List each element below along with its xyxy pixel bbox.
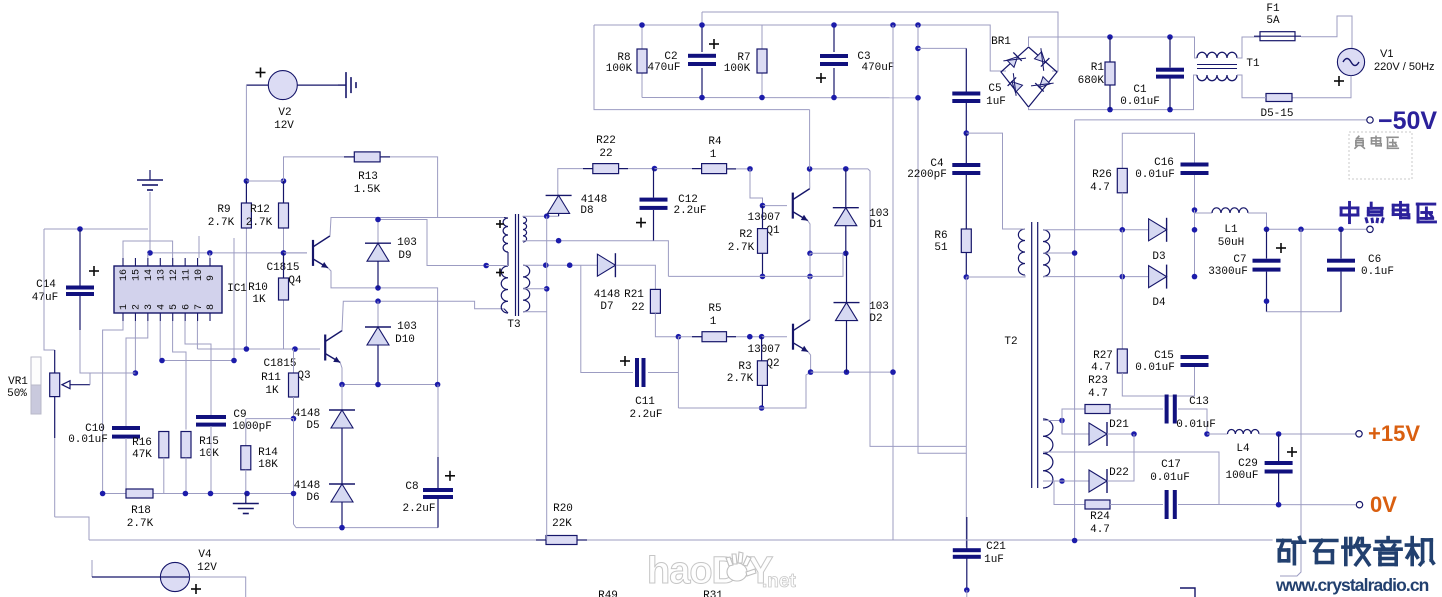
wire Q4 collector: [330, 218, 438, 236]
svg-text:51: 51: [934, 242, 948, 254]
wire D6 bottom rail: [296, 527, 438, 529]
transformer T3 primary lower: [501, 266, 508, 313]
wire C11 branch: [581, 265, 633, 372]
wire x678 column: [677, 337, 679, 408]
diode D7: [597, 254, 615, 276]
capacitor C29: [1278, 434, 1280, 461]
wire R3 bottom y408: [678, 372, 810, 408]
resistor R15: [181, 432, 191, 458]
node C21 bottom: [964, 587, 970, 593]
svg-text:R14: R14: [258, 447, 278, 459]
resistor R5: [678, 336, 702, 338]
resistor R24: [1054, 481, 1085, 505]
svg-text:18K: 18K: [258, 459, 278, 471]
capacitor C7: [1266, 229, 1268, 258]
ground V2: [338, 84, 346, 86]
svg-text:5: 5: [169, 304, 180, 310]
wire emitter rail y372.1: [811, 371, 893, 373]
svg-text:2.7K: 2.7K: [127, 518, 154, 530]
wire pin9 tap: [209, 253, 211, 258]
resistor R22: [558, 169, 593, 196]
wire pin2 fan to VR1 node: [134, 321, 136, 373]
svg-text:2.2uF: 2.2uF: [629, 409, 662, 421]
wire emitter node to D1: [810, 252, 846, 254]
wire bottom rail y540: [89, 539, 546, 541]
capacitor C4: [965, 133, 967, 163]
svg-text:Q4: Q4: [288, 275, 302, 287]
diode D9: [377, 220, 379, 244]
node C2 top: [699, 22, 705, 28]
wire D5-15 to T1 bottom: [1237, 75, 1266, 98]
svg-text:D7: D7: [600, 301, 613, 313]
wire 0V rail: [1219, 504, 1356, 506]
capacitor C16: [1181, 163, 1209, 167]
node D10 top: [375, 298, 381, 304]
svg-text:2.7K: 2.7K: [727, 373, 754, 385]
resistor R27: [1121, 277, 1123, 349]
wire T2 upper sec center tap: [1043, 252, 1075, 254]
svg-text:2.7K: 2.7K: [728, 242, 755, 254]
capacitor C12: [653, 169, 655, 198]
transistor Q3 C1815: [324, 335, 326, 361]
transformer T1: [1197, 52, 1237, 58]
svg-text:1: 1: [710, 149, 717, 161]
node C29 bottom: [1276, 502, 1282, 508]
svg-text:R11: R11: [261, 372, 281, 384]
wire base to Q2: [762, 336, 787, 338]
watermark haoDIY.net: [647, 550, 796, 592]
diode D2: [846, 253, 848, 302]
wire y229: [44, 228, 148, 230]
svg-text:R5: R5: [708, 303, 721, 315]
svg-text:V1: V1: [1380, 48, 1393, 60]
capacitor C8: [437, 385, 439, 458]
svg-text:V4: V4: [198, 549, 212, 561]
svg-text:100K: 100K: [606, 63, 633, 75]
svg-text:C29: C29: [1238, 458, 1258, 470]
svg-text:0V: 0V: [1370, 492, 1397, 517]
wire V4 left: [91, 560, 93, 577]
svg-text:C16: C16: [1154, 157, 1174, 169]
svg-text:2.2uF: 2.2uF: [402, 503, 435, 515]
wire rail left rise: [55, 517, 89, 540]
svg-text:2200pF: 2200pF: [907, 169, 947, 181]
box corner bottom left of watermark: [1180, 588, 1195, 597]
svg-text:12V: 12V: [274, 120, 294, 132]
svg-text:V2: V2: [278, 107, 291, 119]
wire x546 column: [546, 216, 548, 289]
svg-text:C15: C15: [1154, 350, 1174, 362]
wire pin3 fan to C10: [126, 321, 148, 426]
svg-text:C8: C8: [405, 481, 418, 493]
node C12 top: [652, 166, 658, 172]
svg-text:R12: R12: [250, 204, 270, 216]
svg-text:1: 1: [119, 304, 130, 310]
wire V1 bottom to D5-15: [1292, 76, 1351, 98]
wire T3 sec upper bottom: [523, 241, 654, 242]
node R4 right: [747, 166, 753, 172]
wire C2 top stub to y12: [701, 12, 703, 25]
diode D21: [1062, 421, 1089, 435]
bridge rectifier BR1: [1001, 47, 1057, 107]
wire -50V rail: [1075, 119, 1367, 121]
node D9 top: [375, 217, 381, 223]
resistor R8: [641, 25, 643, 49]
node D4 line: [1120, 274, 1126, 280]
svg-text:100K: 100K: [724, 63, 751, 75]
svg-text:D8: D8: [580, 205, 593, 217]
svg-text:4.7: 4.7: [1090, 182, 1110, 194]
wire BR1 bottom to y109.6 rail: [1029, 75, 1198, 110]
wire T2 primary bottom: [966, 275, 1025, 277]
svg-text:2.7K: 2.7K: [246, 217, 273, 229]
svg-text:C6: C6: [1368, 254, 1381, 266]
wire VR1 bottom: [54, 438, 56, 517]
svg-text:D1: D1: [869, 219, 883, 231]
node fan y360: [159, 358, 165, 364]
wire T2 lower sec bottom: [1043, 480, 1062, 482]
svg-text:16: 16: [119, 269, 130, 281]
wire x1301 down: [1280, 229, 1301, 576]
node y276.4: [807, 274, 813, 280]
wire C14 bottom to VR1 node: [80, 330, 135, 373]
svg-text:www.crystalradio.cn: www.crystalradio.cn: [1275, 575, 1429, 595]
svg-text:L1: L1: [1224, 224, 1238, 236]
transformer T3 primary upper: [503, 218, 508, 252]
svg-text:R27: R27: [1093, 350, 1113, 362]
wire y288.8 stub: [523, 288, 547, 290]
svg-text:R6: R6: [934, 230, 947, 242]
resistor R7: [761, 25, 763, 49]
wire R6 bottom down to C21: [965, 277, 967, 547]
svg-text:2.2uF: 2.2uF: [673, 205, 706, 217]
wire V2 right lead: [297, 84, 338, 86]
terminal mid voltage: [1367, 226, 1373, 232]
resistor R26: [1117, 168, 1127, 192]
capacitor C10: [112, 426, 140, 430]
node x546: [544, 286, 550, 292]
svg-text:T1: T1: [1246, 58, 1260, 70]
node Q2 emitter: [808, 369, 814, 375]
resistor R12: [283, 181, 285, 203]
node R3 bottom: [759, 405, 765, 411]
wire pin5 fan to R15: [173, 321, 186, 430]
node D21 out: [1131, 431, 1137, 437]
resistor R18: [126, 489, 153, 498]
svg-text:C21: C21: [986, 541, 1006, 553]
wire x809 from top: [809, 110, 811, 169]
svg-text:R4: R4: [708, 136, 722, 148]
varistor D5-15: [1266, 94, 1292, 102]
capacitor C5: [965, 48, 967, 91]
transformer T3 sec lower: [523, 265, 530, 312]
node D9 anode: [375, 285, 381, 291]
wire collector rail y168.9: [810, 168, 868, 170]
wire x870 feedback vertical: [868, 169, 966, 447]
wire T1 top right to fuse: [1237, 37, 1260, 58]
svg-text:1uF: 1uF: [984, 554, 1004, 566]
diode D22: [1059, 478, 1065, 484]
svg-text:Q3: Q3: [297, 370, 310, 382]
svg-text:D5-15: D5-15: [1260, 108, 1293, 120]
wire T3 center tap feed: [378, 220, 486, 266]
terminal 0V: [1356, 502, 1362, 508]
svg-text:47K: 47K: [132, 449, 152, 461]
svg-text:470uF: 470uF: [861, 62, 894, 74]
svg-text:R3: R3: [738, 361, 751, 373]
svg-text:L4: L4: [1236, 443, 1250, 455]
wire rail y493.5: [103, 493, 126, 495]
transformer T2 primary winding: [1018, 229, 1025, 275]
svg-text:50uH: 50uH: [1218, 237, 1244, 249]
wire T3 sec lower top: [523, 264, 597, 266]
resistor R9: [245, 181, 247, 203]
svg-text:C14: C14: [36, 279, 56, 291]
wire Q3 collector: [342, 301, 504, 330]
svg-text:D4: D4: [1152, 297, 1166, 309]
svg-text:R1: R1: [1091, 62, 1105, 74]
inductor L4: [1207, 433, 1228, 435]
svg-text:R15: R15: [199, 436, 219, 448]
svg-text:D3: D3: [1152, 251, 1165, 263]
svg-text:22: 22: [631, 302, 644, 314]
svg-text:+15V: +15V: [1368, 421, 1420, 446]
svg-text:C7: C7: [1233, 254, 1246, 266]
wire Q2 collector: [809, 276, 811, 319]
svg-text:T2: T2: [1004, 336, 1017, 348]
transistor Q2 13007: [792, 324, 794, 350]
svg-text:12: 12: [169, 269, 180, 281]
capacitor C2: [701, 25, 703, 52]
watermark hand icon: [726, 552, 756, 581]
diode D4: [1149, 266, 1167, 288]
svg-text:R18: R18: [131, 505, 151, 517]
capacitor C21: [966, 517, 968, 549]
node D1 bottom: [843, 251, 849, 257]
voltage source V2: [268, 71, 297, 100]
wire V4 right: [190, 577, 246, 597]
terminal -50V: [1367, 117, 1373, 123]
diode D1: [845, 169, 847, 208]
wire fuse to V1: [1301, 16, 1352, 48]
svg-text:2: 2: [132, 304, 143, 310]
node rail x1074: [1072, 538, 1078, 544]
svg-text:0.01uF: 0.01uF: [1120, 96, 1160, 108]
resistor R26 loop: [1122, 133, 1194, 168]
diode D5: [341, 385, 343, 411]
wire R4 to Q1 base: [750, 169, 763, 206]
potentiometer VR1: [54, 350, 56, 373]
wire y276.4: [668, 253, 843, 276]
svg-text:VR1: VR1: [8, 376, 28, 388]
svg-text:103: 103: [869, 301, 889, 313]
svg-text:R16: R16: [132, 437, 152, 449]
wire C12 bottom to emitter line: [654, 241, 669, 277]
svg-text:0.1uF: 0.1uF: [1361, 266, 1394, 278]
resistor R6: [961, 229, 971, 253]
svg-text:0.01uF: 0.01uF: [1176, 419, 1216, 431]
node R5 right: [747, 334, 753, 340]
diode D3: [1149, 219, 1167, 241]
svg-text:13: 13: [156, 269, 167, 281]
svg-text:4148: 4148: [294, 480, 320, 492]
fuse F1: [1260, 32, 1295, 41]
capacitor C1: [1169, 37, 1171, 68]
resistor R20: [546, 536, 577, 545]
transistor Q4 C1815: [284, 252, 308, 254]
node y372.1: [844, 369, 850, 375]
ground IC area: [149, 170, 151, 180]
node Q1 base: [760, 203, 766, 209]
svg-text:1uF: 1uF: [986, 96, 1006, 108]
IC IC1: [114, 266, 222, 313]
svg-text:D2: D2: [869, 313, 882, 325]
svg-text:0.01uF: 0.01uF: [68, 434, 108, 446]
svg-text:4.7: 4.7: [1088, 388, 1108, 400]
svg-text:T3: T3: [507, 319, 520, 331]
svg-text:50%: 50%: [7, 388, 27, 400]
node R6 bottom: [964, 274, 970, 280]
node R2 bottom: [760, 274, 766, 280]
label 中点电压 text: [1341, 202, 1358, 222]
transformer T2 lower secondary: [1043, 419, 1053, 488]
svg-text:3: 3: [144, 304, 155, 310]
svg-text:4: 4: [156, 304, 167, 310]
wire T3 sec upper top: [523, 215, 559, 218]
node T3 center tap: [483, 263, 489, 269]
resistor R10: [283, 253, 285, 278]
node D8 anode line: [544, 213, 550, 219]
svg-text:13007: 13007: [747, 344, 780, 356]
svg-text:4.7: 4.7: [1090, 524, 1110, 536]
wire T2 lower sec center to 0V: [1043, 452, 1219, 505]
diode D8: [546, 194, 572, 196]
svg-text:.net: .net: [762, 571, 796, 592]
node D3 line: [1120, 227, 1126, 233]
lead stubs horizontal resistors: [344, 156, 354, 158]
resistor R2: [762, 206, 764, 229]
wire pin16 loop: [123, 241, 173, 258]
svg-text:D21: D21: [1109, 419, 1129, 431]
svg-text:12V: 12V: [197, 562, 217, 574]
wire output bottom rail: [1267, 311, 1342, 313]
node pin wire dots: [147, 250, 153, 256]
svg-text:1: 1: [710, 316, 717, 328]
svg-text:9: 9: [206, 275, 217, 281]
svg-text:10: 10: [194, 269, 205, 281]
node rail dots: [699, 95, 705, 101]
inductor L1: [1195, 210, 1213, 213]
svg-text:D9: D9: [398, 250, 411, 262]
svg-text:Q1: Q1: [766, 225, 780, 237]
wire D7 to R21: [616, 265, 656, 289]
svg-text:R49: R49: [598, 590, 618, 597]
wire Q1 collector: [809, 169, 811, 189]
node R8 top: [639, 22, 645, 28]
wire pin7 fan to base line: [196, 321, 198, 349]
svg-text:−50V: −50V: [1378, 107, 1437, 135]
svg-text:R20: R20: [553, 503, 573, 515]
svg-text:103: 103: [397, 237, 417, 249]
node C29 top: [1276, 431, 1282, 437]
wire x810 down: [809, 253, 811, 276]
svg-text:haoD: haoD: [647, 550, 738, 592]
svg-text:C11: C11: [635, 396, 655, 408]
svg-text:C5: C5: [988, 83, 1001, 95]
node emitter rail: [339, 382, 345, 388]
wire y181: [246, 180, 283, 182]
svg-text:47uF: 47uF: [32, 292, 58, 304]
wire pin12 stub: [198, 236, 200, 258]
wire x918 to C5: [918, 47, 966, 49]
svg-text:R22: R22: [596, 135, 616, 147]
node Q1 emitter: [807, 251, 813, 257]
svg-text:1K: 1K: [252, 294, 266, 306]
svg-text:C17: C17: [1161, 459, 1181, 471]
svg-text:0.01uF: 0.01uF: [1135, 362, 1175, 374]
wire T3 center tap stub: [507, 252, 509, 266]
svg-text:1K: 1K: [265, 385, 279, 397]
transformer T3 sec upper: [523, 217, 527, 242]
capacitor C14: [79, 229, 81, 286]
resistor R3: [761, 337, 763, 361]
node y181: [244, 178, 250, 184]
ground R14: [245, 494, 247, 504]
wire R11 col down: [294, 419, 297, 528]
svg-text:100uF: 100uF: [1225, 470, 1258, 482]
svg-text:C9: C9: [233, 409, 246, 421]
svg-text:8: 8: [206, 304, 217, 310]
svg-text:4.7: 4.7: [1091, 362, 1111, 374]
wire top rail y12 to BR1 right: [702, 12, 1058, 71]
node C14 top: [77, 226, 83, 232]
wire pin4 fan: [160, 238, 234, 361]
svg-text:D10: D10: [395, 334, 415, 346]
svg-text:11: 11: [181, 269, 192, 281]
wire T2 lower sec top: [1043, 420, 1062, 422]
resistor R23: [1062, 409, 1085, 421]
svg-text:13007: 13007: [747, 212, 780, 224]
svg-text:F1: F1: [1266, 3, 1280, 15]
wire second rail y25: [594, 25, 1006, 71]
wire Q3 emitter: [340, 363, 342, 385]
svg-text:Q2: Q2: [766, 358, 779, 370]
svg-text:R23: R23: [1088, 375, 1108, 387]
svg-text:C13: C13: [1189, 396, 1209, 408]
wire Q2 emitter: [808, 352, 811, 372]
svg-text:IC1: IC1: [227, 283, 247, 295]
svg-text:BR1: BR1: [991, 36, 1011, 48]
wire pin14 tap: [147, 253, 149, 258]
node C7 bottom: [1264, 298, 1270, 304]
svg-text:4148: 4148: [594, 289, 620, 301]
wire T2 upper sec bottom to D4: [1043, 276, 1149, 278]
resistor R11: [293, 349, 295, 373]
svg-text:D6: D6: [306, 492, 319, 504]
capacitor C9: [196, 415, 226, 419]
capacitor C15: [1181, 355, 1209, 359]
AC source V1: [1337, 48, 1364, 75]
wire R11 to R14 link: [246, 418, 294, 420]
svg-text:R26: R26: [1092, 169, 1112, 181]
resistor R1: [1109, 37, 1111, 62]
svg-text:470uF: 470uF: [647, 62, 680, 74]
node R1 C1 taps: [1107, 34, 1113, 40]
svg-text:14: 14: [144, 269, 155, 281]
watermark 矿石收音机: [1278, 538, 1305, 564]
transistor Q1 13007: [792, 193, 794, 219]
svg-text:R24: R24: [1090, 511, 1110, 523]
